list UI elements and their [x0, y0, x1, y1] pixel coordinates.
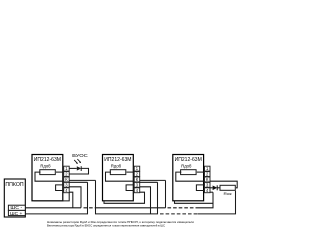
- wire U3 pin 4 exit to upper bus riser: [210, 191, 213, 193]
- pin K of U3: [205, 177, 211, 182]
- LED arrow 2: [77, 159, 81, 163]
- resistor Rдоб of U1: [40, 170, 56, 175]
- pin 1 of U2: [134, 166, 140, 171]
- svg-text:ИП212-63М: ИП212-63М: [175, 157, 202, 163]
- smoke detector U2 ИП212-63М box: [103, 155, 134, 201]
- wire U3 resistor left end loop to pin K: [176, 172, 205, 181]
- svg-text:ИП212-63М: ИП212-63М: [34, 157, 61, 163]
- wire lower bus solid end rising to Rok: [198, 191, 236, 214]
- wire jumper pins 3-4 of U2: [126, 185, 134, 191]
- pin 4 of U1: [64, 188, 69, 193]
- wire U2 pin 3 down to upper bus: [140, 187, 151, 214]
- pin 4 of U2: [134, 188, 140, 193]
- svg-text:Rдоб: Rдоб: [111, 164, 122, 169]
- svg-text:ШС +: ШС +: [10, 211, 23, 216]
- wire ШС- bus dashed section between detector 1 and detector 2: [84, 207, 96, 209]
- svg-text:Rок: Rок: [224, 191, 232, 196]
- wire lower bus dashed section before detector 3: [160, 213, 198, 215]
- wire U1 pin K upper exit to lower bus: [69, 179, 95, 181]
- resistor Rдоб of U3: [181, 170, 197, 175]
- svg-text:Номиналы резисторов Rдоб и Rок: Номиналы резисторов Rдоб и Rок определяю…: [47, 220, 195, 224]
- pin 4 of U3: [205, 188, 211, 193]
- pin 3 of U1: [64, 182, 69, 187]
- wire link detector1 K to detector2 K (lower bus): [96, 180, 158, 214]
- wire U3 pin 3 to diode: [210, 187, 213, 189]
- wire U3 resistor right end to pin 2: [197, 171, 205, 173]
- resistor Rок (end-of-line): [220, 185, 235, 190]
- wire U1 resistor right end to pin 2: [56, 171, 64, 173]
- wire ШС- bus solid under detector 2: [96, 207, 166, 209]
- pin 2 of U3: [205, 172, 211, 177]
- diode cathode bar: [216, 185, 218, 190]
- wire ШС+ bus segment from panel to node below detector 1: [25, 182, 87, 214]
- wire U1 resistor left end loop to pin K: [35, 172, 64, 181]
- pin 1 of U1: [64, 166, 69, 171]
- wire U2 resistor left end loop to pin K: [106, 172, 135, 181]
- pin 3 of U3: [205, 182, 211, 187]
- wire U2 pin 4 loop under box: [104, 192, 145, 203]
- wire U1 pin 4 down to upper bus: [69, 192, 73, 208]
- wire U2 pin K upper exit down to lower bus: [140, 179, 166, 181]
- wire U1 pin 1 to LED anode: [69, 167, 77, 169]
- wire ШС- bus solid end rising to detector 3 terminal 4: [199, 192, 214, 208]
- wire U3 pin K to Rок right end: [210, 181, 237, 188]
- wire jumper pins 3-4 of U3: [196, 185, 204, 191]
- terminal ШС+ of ППКОП: [8, 210, 25, 216]
- svg-text:Rдоб: Rдоб: [40, 164, 51, 169]
- smoke detector U1 ИП212-63М box: [32, 155, 63, 201]
- wire ШС- bus (upper bottom bus, solid from panel to detector 1): [25, 207, 81, 209]
- wire jumper pins 3-4 of U1: [56, 185, 64, 191]
- pin 1 of U3: [205, 166, 211, 171]
- wire U2 resistor right end to pin 2: [127, 171, 135, 173]
- wire U1 pin 3 down to upper bus: [69, 187, 81, 208]
- wire diode to Rок: [217, 187, 220, 189]
- wire U1 pin K lower exit to ШС+ riser: [69, 181, 87, 183]
- LED arrow 1: [74, 160, 78, 164]
- wire detector2 K upper exit down to upper bus: [165, 180, 167, 207]
- wire U2 pin K lower exit down to lower bus: [140, 181, 158, 183]
- pin 2 of U1: [64, 172, 69, 177]
- svg-text:ШС -: ШС -: [10, 205, 22, 210]
- pin K of U2: [134, 177, 140, 182]
- svg-text:ВУОС: ВУОС: [72, 153, 88, 159]
- LED ВУОС cathode bar: [80, 166, 82, 171]
- wire U1 bottom stub corner: [34, 192, 69, 201]
- diode VD in series with Rок: [213, 186, 218, 191]
- control panel ППКОП: [4, 179, 25, 217]
- svg-text:ППКОП: ППКОП: [5, 182, 24, 188]
- resistor Rдоб of U2: [110, 170, 126, 175]
- pin 3 of U2: [134, 182, 140, 187]
- pin K of U1: [64, 177, 69, 182]
- LED ВУОС diode triangle: [77, 166, 81, 170]
- wire ШС- bus dashed section between detector 2 and detector 3: [168, 207, 199, 209]
- pin 2 of U2: [134, 172, 140, 177]
- svg-text:Величина резистора Rдоб в ВУОС: Величина резистора Rдоб в ВУОС определяе…: [47, 223, 165, 227]
- svg-text:ИП212-63М: ИП212-63М: [104, 157, 131, 163]
- wire U3 pin 4 loop under box: [175, 201, 214, 203]
- svg-text:Rдоб: Rдоб: [181, 164, 192, 169]
- terminal ШС- of ППКОП: [8, 205, 25, 211]
- smoke detector U3 ИП212-63М box: [173, 155, 204, 201]
- wire LED cathode to loop: [69, 168, 88, 174]
